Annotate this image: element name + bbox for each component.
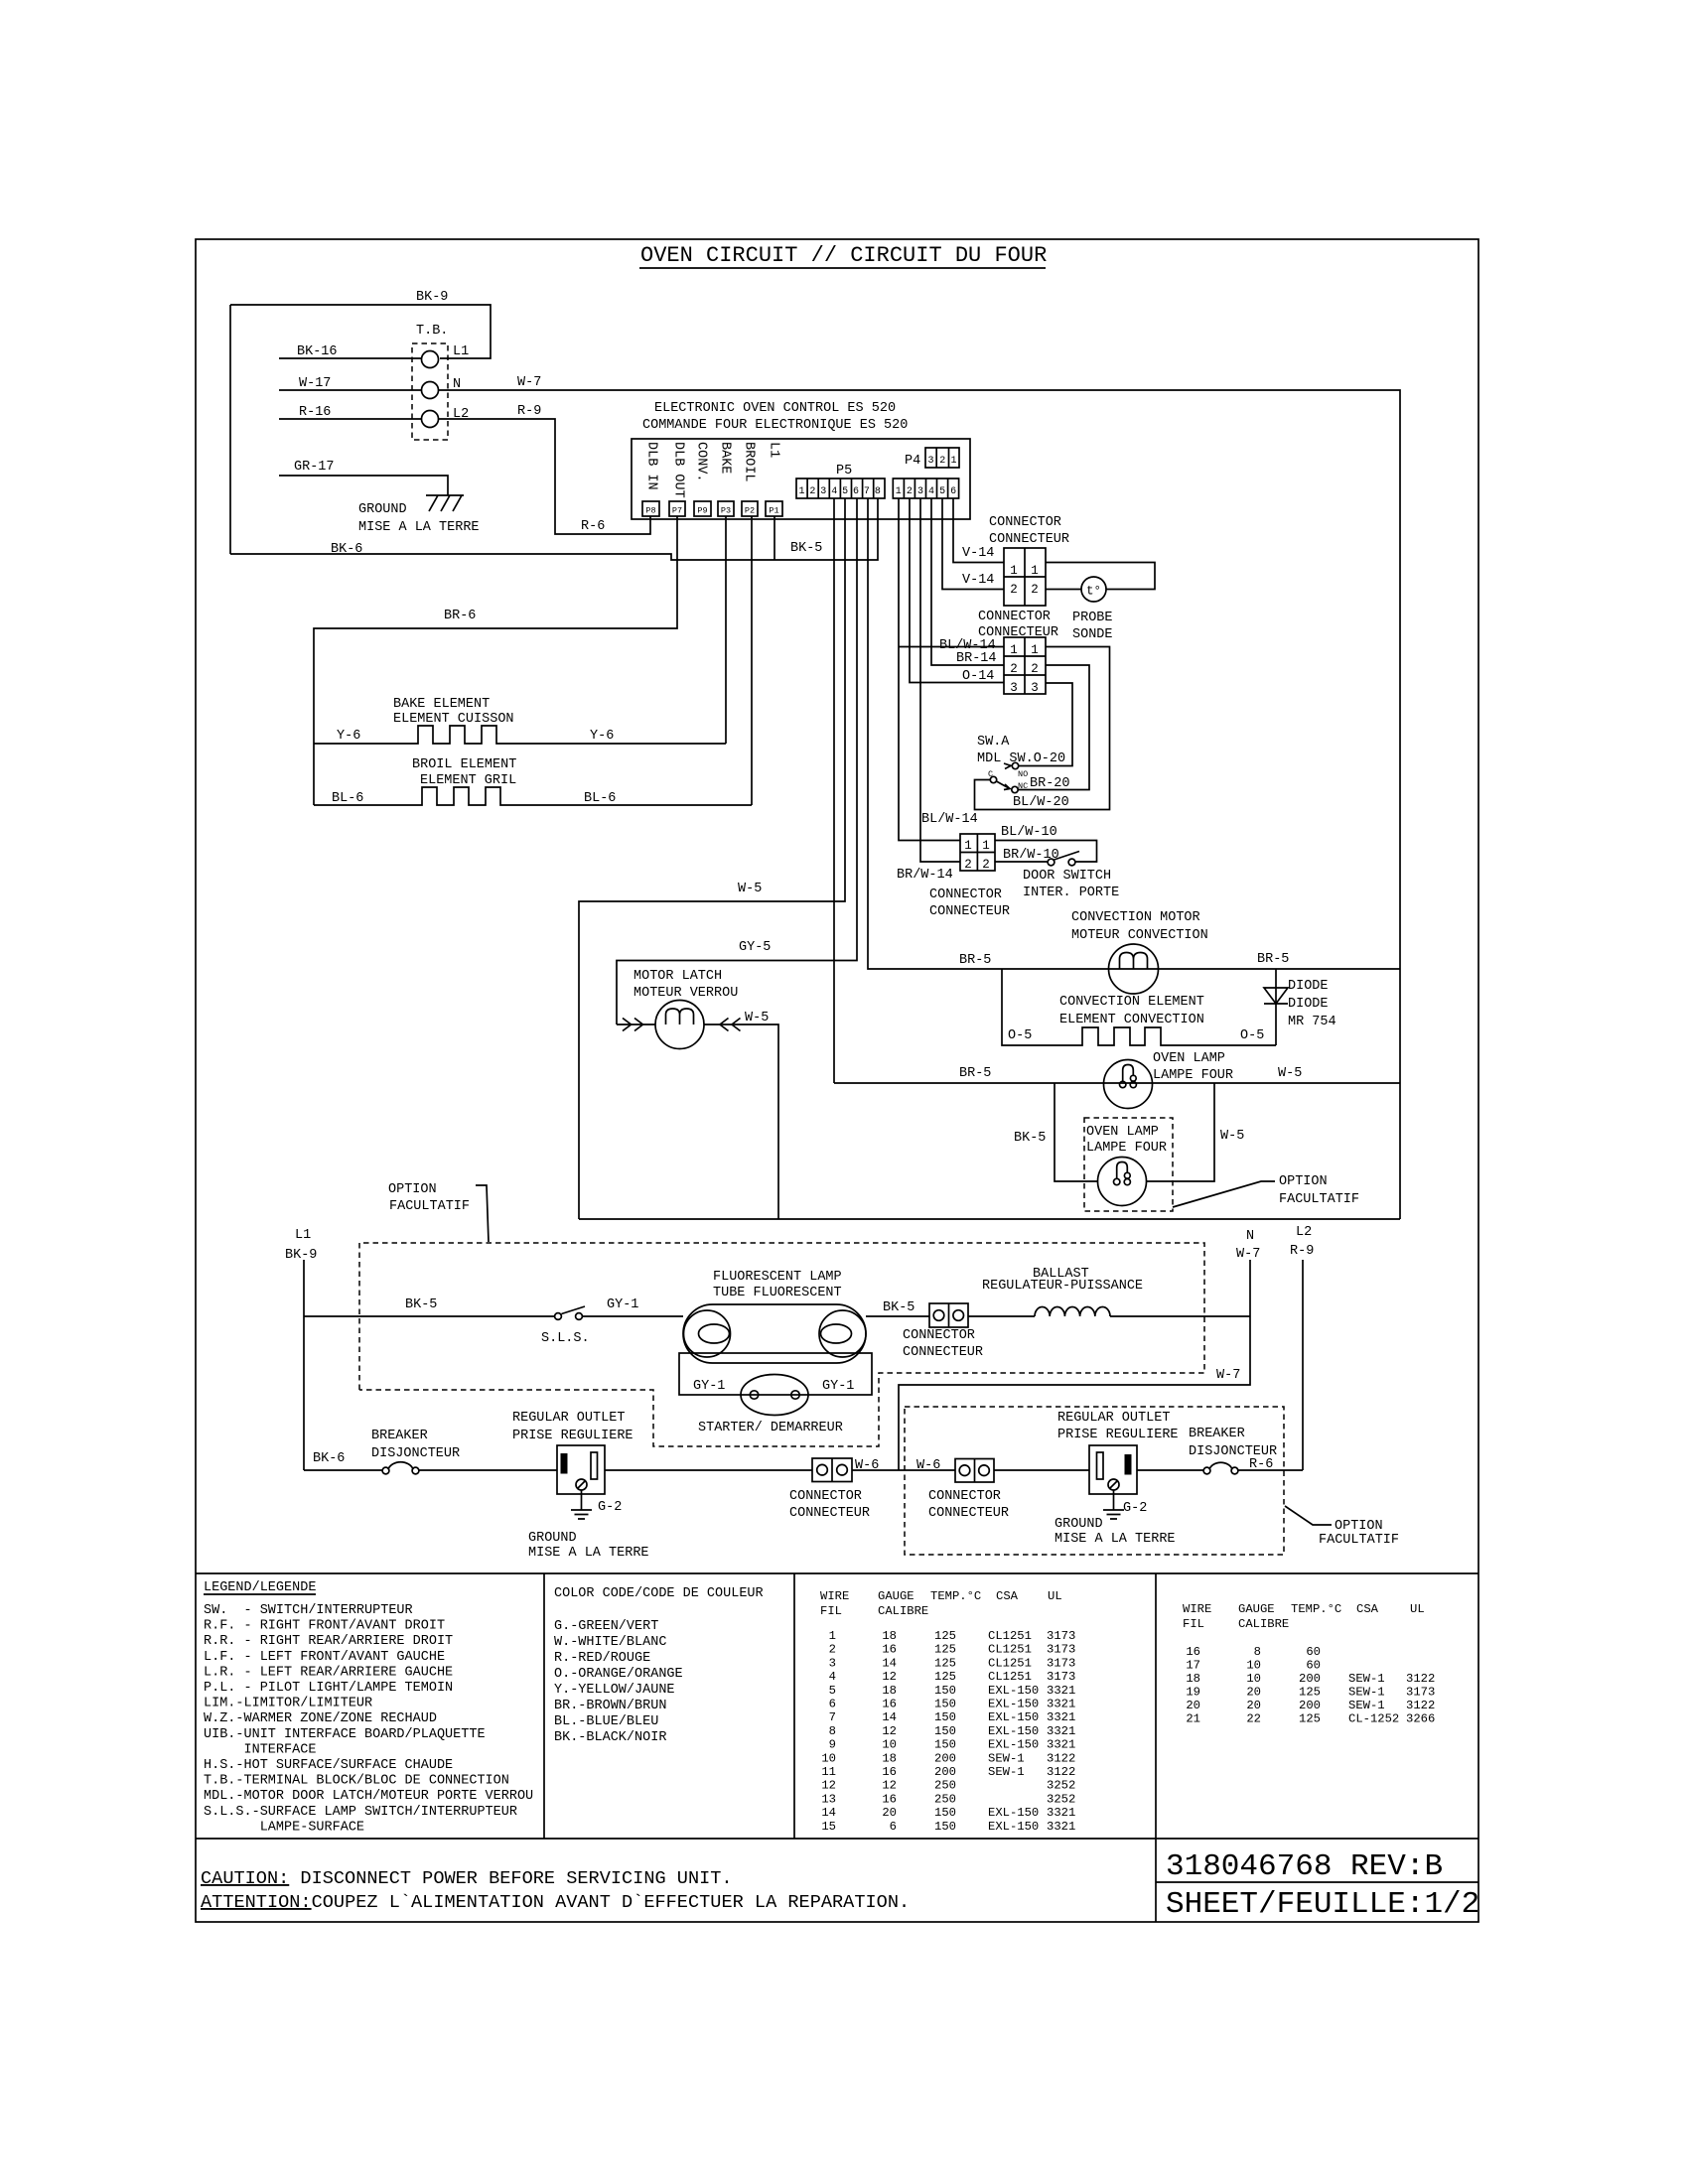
svg-text:3: 3 bbox=[1031, 681, 1039, 695]
svg-text:EXL-150: EXL-150 bbox=[988, 1820, 1039, 1834]
svg-text:2: 2 bbox=[982, 858, 990, 872]
node L2 / R-9 bbox=[1290, 1225, 1314, 1470]
wire BR-6 from P7 down to elements bbox=[314, 516, 677, 805]
svg-text:P7: P7 bbox=[672, 506, 682, 516]
svg-text:250: 250 bbox=[934, 1792, 956, 1806]
svg-text:UIB.-UNIT INTERFACE BOARD/PLAQ: UIB.-UNIT INTERFACE BOARD/PLAQUETTE bbox=[204, 1727, 486, 1742]
wire probe loop row1 right bbox=[1046, 563, 1155, 590]
svg-text:20: 20 bbox=[1246, 1699, 1261, 1712]
svg-text:BR-5: BR-5 bbox=[959, 953, 991, 968]
svg-text:CONVECTION MOTOR: CONVECTION MOTOR bbox=[1071, 910, 1200, 925]
connector P1 bbox=[766, 501, 782, 516]
svg-text:BL-6: BL-6 bbox=[584, 791, 616, 806]
svg-text:ELEMENT CUISSON: ELEMENT CUISSON bbox=[393, 712, 514, 727]
svg-text:PROBE: PROBE bbox=[1072, 611, 1113, 625]
svg-text:150: 150 bbox=[934, 1806, 956, 1820]
svg-text:CONNECTOR: CONNECTOR bbox=[928, 1489, 1001, 1504]
connector 3-pin 2x3 bbox=[1004, 637, 1046, 695]
svg-text:BL/W-10: BL/W-10 bbox=[1001, 825, 1057, 840]
regular outlet 1 (prise reguliere) bbox=[512, 1411, 633, 1494]
svg-text:O-5: O-5 bbox=[1240, 1028, 1264, 1043]
svg-text:OVEN LAMP: OVEN LAMP bbox=[1086, 1125, 1159, 1140]
svg-text:BK-6: BK-6 bbox=[331, 542, 362, 557]
svg-text:P2: P2 bbox=[745, 506, 755, 516]
svg-text:60: 60 bbox=[1306, 1659, 1321, 1673]
page border frame bbox=[196, 239, 1478, 1922]
svg-text:LEGEND/LEGENDE: LEGEND/LEGENDE bbox=[204, 1580, 316, 1595]
wire W-7 neutral from N to right edge then down bbox=[439, 375, 1400, 1219]
svg-text:S.L.S.: S.L.S. bbox=[541, 1331, 590, 1346]
oven lamp 1 bbox=[1104, 1051, 1234, 1109]
svg-text:BL.-BLUE/BLEU: BL.-BLUE/BLEU bbox=[554, 1714, 658, 1729]
svg-text:6: 6 bbox=[950, 486, 956, 497]
svg-text:DIODE: DIODE bbox=[1288, 979, 1329, 994]
svg-text:INTERFACE: INTERFACE bbox=[204, 1742, 316, 1757]
wire P5-2-2 down to O-14 bbox=[910, 498, 1004, 683]
svg-text:318046768 REV:B: 318046768 REV:B bbox=[1166, 1849, 1443, 1884]
svg-text:FACULTATIF: FACULTATIF bbox=[1279, 1192, 1359, 1207]
svg-text:2: 2 bbox=[1010, 662, 1018, 676]
svg-text:200: 200 bbox=[934, 1751, 956, 1765]
svg-text:W-5: W-5 bbox=[1220, 1129, 1244, 1144]
svg-text:EXL-150: EXL-150 bbox=[988, 1684, 1039, 1698]
wire R-9 / R-6 from L2 to connector P8 bbox=[439, 404, 650, 534]
svg-text:1: 1 bbox=[896, 486, 902, 497]
svg-text:GAUGE: GAUGE bbox=[878, 1589, 914, 1603]
svg-text:OPTION: OPTION bbox=[1335, 1519, 1383, 1534]
svg-text:3173: 3173 bbox=[1047, 1629, 1075, 1643]
ground (chassis) symbol bbox=[358, 495, 480, 535]
svg-text:R.F. - RIGHT FRONT/AVANT DROIT: R.F. - RIGHT FRONT/AVANT DROIT bbox=[204, 1619, 445, 1634]
svg-text:INTER. PORTE: INTER. PORTE bbox=[1023, 886, 1119, 900]
svg-text:SW.A: SW.A bbox=[977, 735, 1010, 750]
motor latch (moteur verrou) bbox=[617, 969, 778, 1219]
wire W-5 bottom return (neutral box bottom) bbox=[579, 1218, 1400, 1220]
svg-text:BR-6: BR-6 bbox=[444, 609, 476, 623]
wire 3-pin row2 right to NC (BR-20) bbox=[1018, 665, 1089, 790]
svg-text:W-5: W-5 bbox=[745, 1011, 769, 1025]
svg-text:1: 1 bbox=[964, 839, 972, 853]
svg-text:ELECTRONIC OVEN CONTROL ES 520: ELECTRONIC OVEN CONTROL ES 520 bbox=[654, 401, 896, 416]
wire R-16 into L2 bbox=[279, 405, 421, 420]
svg-text:BK-9: BK-9 bbox=[285, 1248, 317, 1263]
svg-text:GR-17: GR-17 bbox=[294, 460, 335, 475]
wire BK-5 to lamp 2 bbox=[1014, 1083, 1097, 1181]
convection element bbox=[1002, 969, 1276, 1045]
svg-text:BK.-BLACK/NOIR: BK.-BLACK/NOIR bbox=[554, 1730, 666, 1745]
svg-text:200: 200 bbox=[934, 1765, 956, 1779]
wire P5-2-4 down to BR-14 bbox=[931, 498, 1004, 665]
svg-text:REGULAR OUTLET: REGULAR OUTLET bbox=[1057, 1411, 1170, 1426]
svg-text:16: 16 bbox=[882, 1643, 897, 1657]
svg-text:CONV.: CONV. bbox=[694, 442, 709, 482]
door switch contacts bbox=[1023, 852, 1119, 901]
svg-text:L1: L1 bbox=[453, 344, 469, 359]
terminal block T.B. dashed body bbox=[412, 324, 448, 440]
svg-text:DLB OUT: DLB OUT bbox=[671, 442, 686, 498]
svg-text:BROIL ELEMENT: BROIL ELEMENT bbox=[412, 757, 516, 772]
svg-text:1: 1 bbox=[798, 486, 804, 497]
svg-text:WIRE: WIRE bbox=[820, 1589, 849, 1603]
svg-text:FACULTATIF: FACULTATIF bbox=[1319, 1533, 1399, 1548]
svg-text:EXL-150: EXL-150 bbox=[988, 1710, 1039, 1724]
svg-text:DIODE: DIODE bbox=[1288, 997, 1329, 1012]
svg-text:R-16: R-16 bbox=[299, 405, 331, 420]
svg-text:OVEN LAMP: OVEN LAMP bbox=[1153, 1051, 1225, 1066]
convection motor bbox=[1071, 910, 1208, 994]
svg-text:8: 8 bbox=[875, 486, 881, 497]
svg-text:BK-5: BK-5 bbox=[405, 1297, 437, 1312]
svg-text:OPTION: OPTION bbox=[388, 1182, 437, 1197]
svg-text:3122: 3122 bbox=[1047, 1751, 1075, 1765]
svg-text:CAUTION: DISCONNECT POWER BEFO: CAUTION: DISCONNECT POWER BEFORE SERVICI… bbox=[201, 1868, 733, 1889]
svg-text:COLOR CODE/CODE DE COULEUR: COLOR CODE/CODE DE COULEUR bbox=[554, 1586, 764, 1601]
svg-text:4: 4 bbox=[831, 486, 837, 497]
svg-text:3: 3 bbox=[829, 1656, 836, 1670]
svg-text:MISE A LA TERRE: MISE A LA TERRE bbox=[528, 1546, 649, 1561]
fluorescent lamp / tube fluorescent bbox=[683, 1270, 866, 1363]
svg-text:BR/W-10: BR/W-10 bbox=[1003, 848, 1059, 863]
svg-text:W-17: W-17 bbox=[299, 376, 331, 391]
probe connector labels bbox=[962, 515, 1069, 588]
svg-text:3: 3 bbox=[820, 486, 826, 497]
svg-text:3173: 3173 bbox=[1047, 1643, 1075, 1657]
svg-text:21: 21 bbox=[1186, 1712, 1200, 1726]
svg-text:DISJONCTEUR: DISJONCTEUR bbox=[371, 1446, 460, 1461]
svg-text:W.-WHITE/BLANC: W.-WHITE/BLANC bbox=[554, 1635, 666, 1650]
svg-text:LAMPE-SURFACE: LAMPE-SURFACE bbox=[204, 1820, 364, 1835]
svg-text:CONNECTOR: CONNECTOR bbox=[903, 1328, 975, 1343]
svg-text:MDL SW.O-20: MDL SW.O-20 bbox=[977, 751, 1065, 766]
svg-text:GY-5: GY-5 bbox=[739, 940, 771, 955]
svg-text:t°: t° bbox=[1086, 585, 1101, 599]
svg-text:8: 8 bbox=[829, 1724, 836, 1738]
switch SW.A MDL SW.O-20 bbox=[977, 735, 1065, 793]
svg-text:3122: 3122 bbox=[1047, 1765, 1075, 1779]
svg-text:BR.-BROWN/BRUN: BR.-BROWN/BRUN bbox=[554, 1699, 666, 1713]
title OVEN CIRCUIT // CIRCUIT DU FOUR bbox=[639, 243, 1047, 268]
svg-text:DOOR SWITCH: DOOR SWITCH bbox=[1023, 869, 1111, 884]
svg-text:SHEET/FEUILLE:1/2: SHEET/FEUILLE:1/2 bbox=[1166, 1887, 1479, 1922]
svg-text:O.-ORANGE/ORANGE: O.-ORANGE/ORANGE bbox=[554, 1667, 683, 1682]
svg-text:125: 125 bbox=[934, 1656, 956, 1670]
svg-text:P.L. - PILOT LIGHT/LAMPE TEMOI: P.L. - PILOT LIGHT/LAMPE TEMOIN bbox=[204, 1681, 453, 1696]
wire 3-pin row1 right to BL/W-20 loop bbox=[975, 647, 1110, 810]
svg-text:3321: 3321 bbox=[1047, 1698, 1075, 1711]
svg-text:SONDE: SONDE bbox=[1072, 627, 1113, 642]
svg-text:L.R. - LEFT REAR/ARRIERE GAUCH: L.R. - LEFT REAR/ARRIERE GAUCHE bbox=[204, 1665, 453, 1680]
connector P5 group 2 cells 1-6 bbox=[893, 478, 958, 498]
svg-text:WIRE: WIRE bbox=[1183, 1602, 1211, 1616]
svg-text:3: 3 bbox=[927, 456, 933, 467]
svg-text:P5: P5 bbox=[836, 464, 852, 478]
svg-text:6: 6 bbox=[853, 486, 859, 497]
svg-text:MR 754: MR 754 bbox=[1288, 1015, 1336, 1029]
svg-text:20: 20 bbox=[1246, 1686, 1261, 1700]
svg-text:16: 16 bbox=[1186, 1645, 1200, 1659]
svg-text:CONNECTEUR: CONNECTEUR bbox=[903, 1345, 983, 1360]
svg-text:O-5: O-5 bbox=[1008, 1028, 1032, 1043]
wire BK-16 into L1 bbox=[279, 344, 421, 359]
wire BK-5 tube to ballast connector bbox=[866, 1300, 929, 1316]
svg-text:G-2: G-2 bbox=[1123, 1501, 1147, 1516]
starter / demarreur bbox=[693, 1375, 854, 1436]
svg-text:DLB IN: DLB IN bbox=[644, 442, 659, 490]
oven lamp 2 (optional, dashed) bbox=[1084, 1118, 1173, 1211]
connector (ballast) bbox=[903, 1303, 983, 1360]
wire GY-1 from switch to tube bbox=[583, 1297, 683, 1316]
svg-text:EXL-150: EXL-150 bbox=[988, 1806, 1039, 1820]
svg-text:V-14: V-14 bbox=[962, 573, 994, 588]
svg-text:V-14: V-14 bbox=[962, 546, 994, 561]
svg-text:1: 1 bbox=[1031, 564, 1039, 578]
svg-text:FACULTATIF: FACULTATIF bbox=[389, 1199, 470, 1214]
svg-text:12: 12 bbox=[882, 1670, 897, 1684]
svg-text:L.F. - LEFT FRONT/AVANT GAUCHE: L.F. - LEFT FRONT/AVANT GAUCHE bbox=[204, 1650, 445, 1665]
svg-text:BR/W-14: BR/W-14 bbox=[897, 868, 953, 883]
svg-text:R.R. - RIGHT REAR/ARRIERE DROI: R.R. - RIGHT REAR/ARRIERE DROIT bbox=[204, 1634, 453, 1649]
svg-text:125: 125 bbox=[934, 1629, 956, 1643]
option dashed box (fluorescent lamp assembly) bbox=[359, 1243, 1204, 1446]
svg-text:CALIBRE: CALIBRE bbox=[1238, 1617, 1289, 1631]
svg-text:GY-1: GY-1 bbox=[693, 1379, 725, 1394]
svg-text:3: 3 bbox=[1010, 681, 1018, 695]
wire P5-2-3 down to BR/W-14 bbox=[920, 498, 960, 862]
connector P4 cells 3 2 1 bbox=[905, 448, 959, 469]
connector P8 bbox=[642, 501, 659, 516]
connector (probe) 2x2 bbox=[1004, 548, 1046, 606]
wire gauge table 2 bbox=[1183, 1602, 1435, 1726]
svg-text:R-6: R-6 bbox=[1249, 1457, 1273, 1472]
svg-text:CONNECTOR: CONNECTOR bbox=[929, 887, 1002, 902]
color code block bbox=[554, 1586, 764, 1745]
wire P5-1-7 down to BR-5 convection line bbox=[868, 498, 1400, 969]
svg-text:BR-5: BR-5 bbox=[959, 1066, 991, 1081]
bake element bbox=[314, 697, 726, 744]
svg-text:CONNECTEUR: CONNECTEUR bbox=[789, 1506, 870, 1521]
wire probe row2 right bbox=[1046, 589, 1081, 591]
svg-text:LIM.-LIMITOR/LIMITEUR: LIM.-LIMITOR/LIMITEUR bbox=[204, 1697, 372, 1711]
option facultatif label + leader (outlet 2) bbox=[1285, 1506, 1399, 1548]
svg-text:SEW-1: SEW-1 bbox=[1348, 1699, 1385, 1712]
svg-text:SW. - SWITCH/INTERRUPTEUR: SW. - SWITCH/INTERRUPTEUR bbox=[204, 1603, 413, 1618]
svg-text:125: 125 bbox=[1299, 1686, 1321, 1700]
svg-text:3321: 3321 bbox=[1047, 1738, 1075, 1752]
svg-text:CONNECTEUR: CONNECTEUR bbox=[929, 904, 1010, 919]
svg-text:1: 1 bbox=[1010, 643, 1018, 657]
svg-text:10: 10 bbox=[1246, 1672, 1261, 1686]
svg-text:1: 1 bbox=[1031, 643, 1039, 657]
svg-text:PRISE REGULIERE: PRISE REGULIERE bbox=[512, 1429, 633, 1443]
wire Y-6 up to P3 bbox=[725, 516, 727, 744]
svg-text:TEMP.°C: TEMP.°C bbox=[1291, 1602, 1341, 1616]
svg-text:4: 4 bbox=[829, 1670, 836, 1684]
svg-text:4: 4 bbox=[928, 486, 934, 497]
svg-text:SEW-1: SEW-1 bbox=[1348, 1686, 1385, 1700]
svg-text:R.-RED/ROUGE: R.-RED/ROUGE bbox=[554, 1651, 650, 1666]
svg-text:17: 17 bbox=[1186, 1659, 1200, 1673]
wire P5-1-4 down to oven lamp line (BR-5) bbox=[833, 498, 835, 1083]
svg-text:GROUND: GROUND bbox=[528, 1531, 577, 1546]
svg-text:150: 150 bbox=[934, 1820, 956, 1834]
svg-text:H.S.-HOT SURFACE/SURFACE CHAUD: H.S.-HOT SURFACE/SURFACE CHAUDE bbox=[204, 1758, 453, 1773]
svg-text:18: 18 bbox=[1186, 1672, 1200, 1686]
svg-text:1: 1 bbox=[950, 456, 956, 467]
svg-text:MISE A LA TERRE: MISE A LA TERRE bbox=[358, 520, 480, 535]
svg-text:200: 200 bbox=[1299, 1699, 1321, 1712]
wire BL-6 up to P2 bbox=[751, 516, 753, 805]
svg-text:S.L.S.-SURFACE LAMP SWITCH/INT: S.L.S.-SURFACE LAMP SWITCH/INTERRUPTEUR bbox=[204, 1805, 517, 1820]
option dashed box (outlet 2) bbox=[905, 1407, 1284, 1555]
svg-text:125: 125 bbox=[934, 1670, 956, 1684]
regular outlet 2 (prise reguliere) bbox=[1057, 1411, 1179, 1494]
svg-text:R-9: R-9 bbox=[517, 404, 541, 419]
svg-text:TUBE FLUORESCENT: TUBE FLUORESCENT bbox=[713, 1286, 842, 1300]
svg-text:3173: 3173 bbox=[1047, 1670, 1075, 1684]
ground (outlet 2) bbox=[1055, 1490, 1176, 1547]
wire BL/W-10 loop from row1 to door switch right bbox=[995, 825, 1097, 862]
probe (sonde) t deg bbox=[1072, 577, 1113, 642]
svg-text:GAUGE: GAUGE bbox=[1238, 1602, 1275, 1616]
wire BK-5 to S.L.S. bbox=[304, 1297, 554, 1316]
svg-text:L1: L1 bbox=[295, 1228, 311, 1243]
svg-text:ELEMENT GRIL: ELEMENT GRIL bbox=[420, 773, 516, 788]
svg-text:15: 15 bbox=[821, 1820, 836, 1834]
svg-text:18: 18 bbox=[882, 1629, 897, 1643]
svg-text:T.B.-TERMINAL BLOCK/BLOC DE CO: T.B.-TERMINAL BLOCK/BLOC DE CONNECTION bbox=[204, 1774, 509, 1789]
connector P3 bbox=[718, 501, 734, 516]
svg-text:NO: NO bbox=[1018, 769, 1028, 779]
svg-text:3321: 3321 bbox=[1047, 1710, 1075, 1724]
svg-text:BROIL: BROIL bbox=[742, 442, 757, 482]
svg-text:CSA: CSA bbox=[996, 1589, 1019, 1603]
svg-text:STARTER/ DEMARREUR: STARTER/ DEMARREUR bbox=[698, 1421, 843, 1435]
svg-text:ELEMENT CONVECTION: ELEMENT CONVECTION bbox=[1059, 1013, 1204, 1027]
wire P5-2-6 down to V-14 row1 bbox=[953, 498, 1004, 563]
connector P5 group 1 cells 1-8 bbox=[796, 478, 885, 498]
svg-text:6: 6 bbox=[829, 1698, 836, 1711]
broil element bbox=[314, 757, 752, 806]
option facultatif leader (lamp 2) bbox=[1173, 1174, 1359, 1207]
svg-text:O-14: O-14 bbox=[962, 669, 994, 684]
svg-text:8: 8 bbox=[1254, 1645, 1261, 1659]
svg-text:LAMPE FOUR: LAMPE FOUR bbox=[1086, 1141, 1167, 1156]
svg-text:UL: UL bbox=[1048, 1589, 1062, 1603]
svg-text:GROUND: GROUND bbox=[1055, 1517, 1103, 1532]
wire W-5 from lamp 2 bbox=[1147, 1083, 1244, 1181]
svg-text:1: 1 bbox=[1010, 564, 1018, 578]
wire GR-17 to chassis ground bbox=[279, 460, 448, 495]
terminal L1 bbox=[422, 344, 470, 368]
svg-text:125: 125 bbox=[934, 1643, 956, 1657]
svg-text:OPTION: OPTION bbox=[1279, 1174, 1328, 1189]
svg-text:3122: 3122 bbox=[1406, 1699, 1435, 1712]
svg-text:R-9: R-9 bbox=[1290, 1244, 1314, 1259]
svg-text:L1: L1 bbox=[767, 442, 781, 458]
svg-text:2: 2 bbox=[939, 456, 945, 467]
connector W-6 (right) bbox=[916, 1458, 1009, 1521]
svg-text:18: 18 bbox=[882, 1751, 897, 1765]
svg-text:W-7: W-7 bbox=[1236, 1247, 1260, 1262]
svg-text:20: 20 bbox=[882, 1806, 897, 1820]
svg-text:CONNECTOR: CONNECTOR bbox=[789, 1489, 862, 1504]
svg-text:150: 150 bbox=[934, 1684, 956, 1698]
svg-text:Y.-YELLOW/JAUNE: Y.-YELLOW/JAUNE bbox=[554, 1683, 675, 1698]
svg-text:9: 9 bbox=[829, 1738, 836, 1752]
svg-text:10: 10 bbox=[1246, 1659, 1261, 1673]
svg-text:150: 150 bbox=[934, 1698, 956, 1711]
svg-text:13: 13 bbox=[821, 1792, 836, 1806]
svg-text:SEW-1: SEW-1 bbox=[1348, 1672, 1385, 1686]
svg-text:22: 22 bbox=[1246, 1712, 1261, 1726]
svg-text:3321: 3321 bbox=[1047, 1806, 1075, 1820]
3-pin connector labels bbox=[939, 610, 1058, 684]
svg-text:2: 2 bbox=[809, 486, 815, 497]
node N / W-7 bbox=[899, 1229, 1260, 1470]
svg-text:P4: P4 bbox=[905, 454, 920, 469]
svg-text:ATTENTION:COUPEZ L`ALIMENTATIO: ATTENTION:COUPEZ L`ALIMENTATION AVANT D`… bbox=[201, 1892, 910, 1913]
svg-text:CALIBRE: CALIBRE bbox=[878, 1604, 928, 1618]
wire to outlet 2 bbox=[994, 1469, 1089, 1471]
wire P5-1-5 down to W-5 line bbox=[579, 498, 845, 1219]
svg-text:14: 14 bbox=[821, 1806, 836, 1820]
terminal L2 bbox=[422, 407, 470, 428]
svg-text:W-7: W-7 bbox=[517, 375, 541, 390]
svg-text:BAKE: BAKE bbox=[718, 442, 733, 474]
wire P5-1-6 down to GY-5 motor latch bbox=[617, 498, 857, 1024]
svg-text:CL1251: CL1251 bbox=[988, 1670, 1032, 1684]
svg-text:EXL-150: EXL-150 bbox=[988, 1724, 1039, 1738]
svg-text:3173: 3173 bbox=[1047, 1656, 1075, 1670]
svg-text:2: 2 bbox=[964, 858, 972, 872]
svg-text:Y-6: Y-6 bbox=[337, 729, 360, 744]
svg-text:BL/W-20: BL/W-20 bbox=[1013, 795, 1069, 810]
svg-text:BR-5: BR-5 bbox=[1257, 952, 1289, 967]
svg-text:OVEN CIRCUIT // CIRCUIT DU FOU: OVEN CIRCUIT // CIRCUIT DU FOUR bbox=[640, 243, 1047, 268]
svg-text:R-6: R-6 bbox=[581, 519, 605, 534]
svg-text:W.Z.-WARMER ZONE/ZONE RECHAUD: W.Z.-WARMER ZONE/ZONE RECHAUD bbox=[204, 1711, 437, 1726]
svg-text:10: 10 bbox=[821, 1751, 836, 1765]
svg-text:GROUND: GROUND bbox=[358, 502, 407, 517]
svg-text:5: 5 bbox=[842, 486, 848, 497]
breaker / disjoncteur 2 bbox=[1137, 1427, 1303, 1474]
breaker / disjoncteur 1 bbox=[304, 1429, 557, 1474]
electronic oven control ES 520 box bbox=[632, 401, 970, 519]
option facultatif label + leader (fluorescent) bbox=[388, 1182, 489, 1242]
svg-text:BL-6: BL-6 bbox=[332, 791, 363, 806]
svg-text:16: 16 bbox=[882, 1765, 897, 1779]
svg-text:3: 3 bbox=[917, 486, 923, 497]
svg-text:16: 16 bbox=[882, 1698, 897, 1711]
wire W-7 junction between connectors bbox=[852, 1469, 955, 1471]
svg-text:REGULATEUR-PUISSANCE: REGULATEUR-PUISSANCE bbox=[982, 1279, 1143, 1294]
svg-text:3321: 3321 bbox=[1047, 1724, 1075, 1738]
svg-text:1: 1 bbox=[982, 839, 990, 853]
switch S.L.S. bbox=[541, 1306, 590, 1346]
svg-text:16: 16 bbox=[882, 1792, 897, 1806]
svg-text:SEW-1: SEW-1 bbox=[988, 1751, 1025, 1765]
svg-text:11: 11 bbox=[821, 1765, 836, 1779]
svg-text:3252: 3252 bbox=[1047, 1779, 1075, 1793]
svg-text:BAKE ELEMENT: BAKE ELEMENT bbox=[393, 697, 490, 712]
svg-text:19: 19 bbox=[1186, 1686, 1200, 1700]
wire left vertical L1 drop to BK-6 bbox=[229, 305, 231, 554]
wire BK-6 / BK-5 from L1 vertical to P1 and P5 pin 8 bbox=[230, 498, 878, 560]
svg-text:CONVECTION ELEMENT: CONVECTION ELEMENT bbox=[1059, 995, 1204, 1010]
svg-text:MISE A LA TERRE: MISE A LA TERRE bbox=[1055, 1532, 1176, 1547]
svg-text:5: 5 bbox=[829, 1684, 836, 1698]
wire P1 to BK-5 line bbox=[774, 516, 775, 560]
